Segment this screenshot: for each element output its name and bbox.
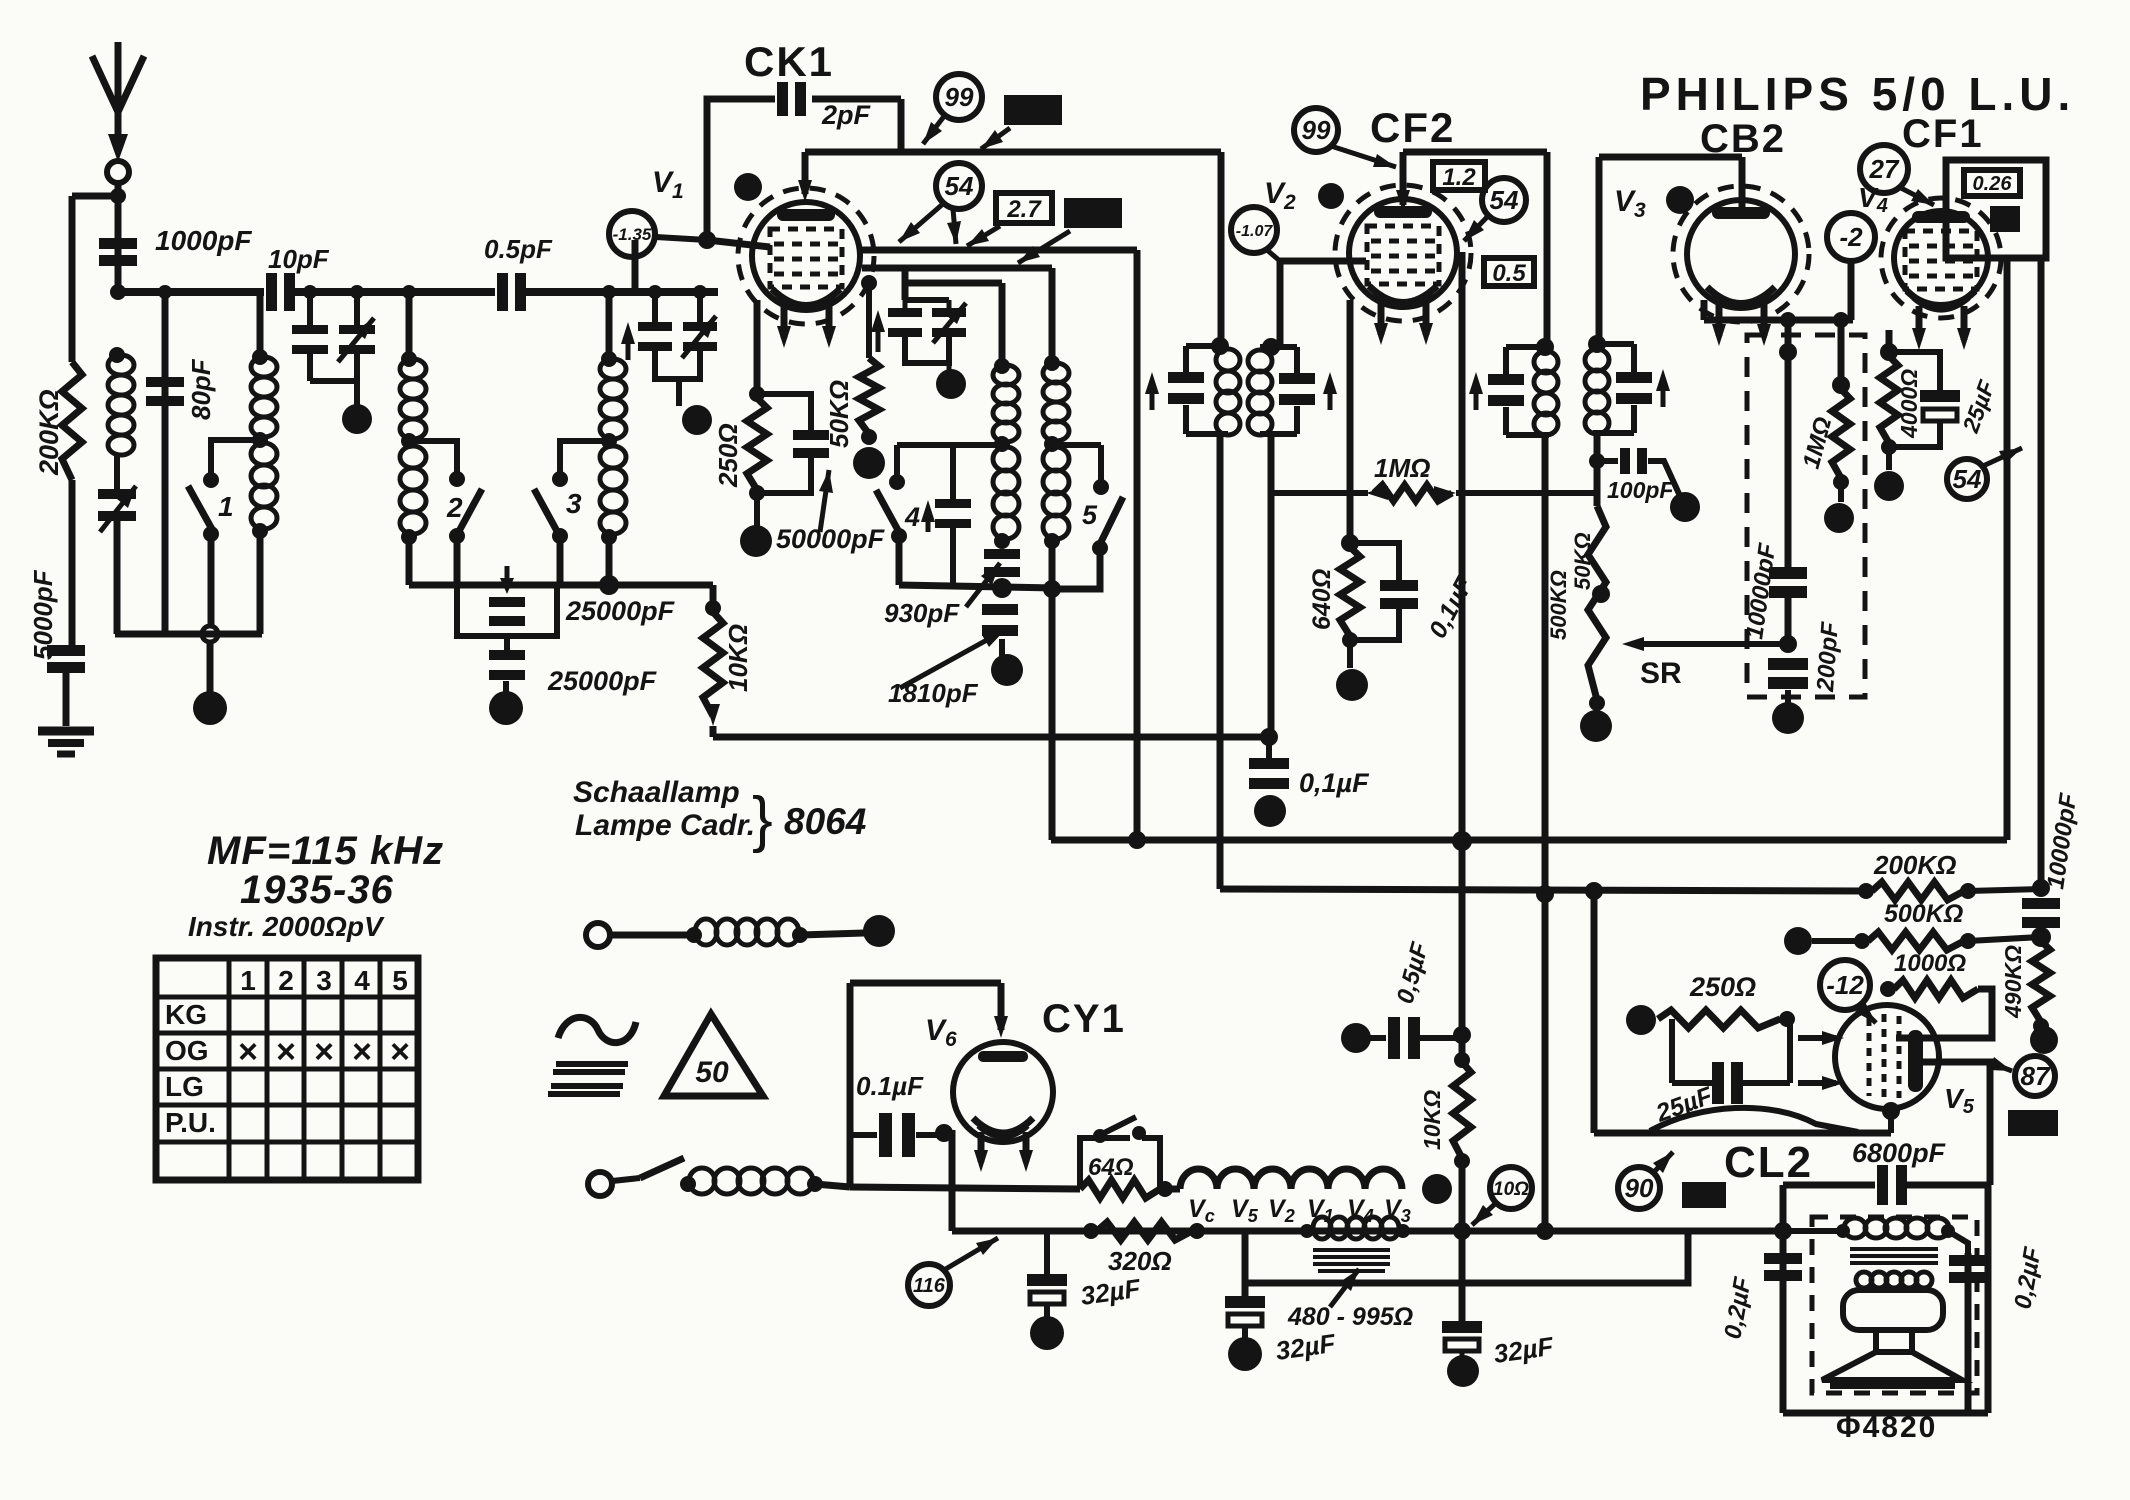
- capacitor 32uF b: [1225, 1296, 1265, 1326]
- duodiode V3: [1673, 186, 1809, 322]
- node speaker in left: [1774, 1222, 1792, 1240]
- inductor L5 lower: [993, 447, 1019, 539]
- wire 32uF2 branch: [1242, 1231, 1249, 1296]
- svg-text:-12: -12: [1826, 970, 1864, 1000]
- node bus padderB2: [693, 285, 707, 299]
- wire 50000pF bracket top: [757, 394, 811, 430]
- node 200K left: [1858, 883, 1874, 899]
- wire padder A2: [354, 292, 360, 325]
- wire anode to IFT1: [1218, 152, 1225, 346]
- trimmer padder B: [683, 322, 717, 351]
- wire padder A1 low: [307, 354, 313, 381]
- wire 50000pF bracket bottom: [757, 458, 811, 493]
- AC symbol: [558, 1017, 636, 1042]
- node 640R bottom: [1342, 632, 1358, 648]
- wire V3 left pin: [1701, 300, 1708, 320]
- node blob 32uF a: [1030, 1316, 1064, 1350]
- svg-text:54: 54: [945, 171, 974, 201]
- DC symbol lines: [548, 1064, 628, 1094]
- svg-text:Lampe Cadr.: Lampe Cadr.: [575, 809, 755, 842]
- node 500K left: [1854, 933, 1870, 949]
- trimmer A arrow: [338, 318, 374, 362]
- node 930pF junction: [992, 578, 1012, 598]
- wire to left branch: [72, 193, 118, 200]
- svg-text:PHILIPS 5/0 L.U.: PHILIPS 5/0 L.U.: [1640, 68, 2075, 120]
- wire coil6 down x1052: [1049, 541, 1056, 840]
- wire 100pF lead: [1597, 458, 1618, 464]
- svg-text:2: 2: [278, 965, 294, 996]
- inductor IFT1 left coil: [1216, 349, 1240, 435]
- annotation box 1.5: [1064, 198, 1122, 228]
- inductor IFT2 left coil: [1534, 351, 1558, 435]
- wire IFT2 right bottom to SR: [1594, 433, 1601, 506]
- svg-text:10KΩ: 10KΩ: [723, 624, 753, 692]
- wire trimmer4 top stub: [950, 445, 956, 499]
- wire into V3: [1739, 157, 1746, 210]
- svg-text:80pF: 80pF: [186, 358, 216, 420]
- wire band line B: [899, 585, 1056, 588]
- svg-text:-1.07: -1.07: [1236, 223, 1274, 240]
- wire right cap branch: [1965, 1253, 1972, 1413]
- wire 6800 right: [1907, 1182, 1990, 1189]
- wire coil down: [606, 537, 613, 585]
- capacitor 200pF: [1768, 658, 1808, 689]
- svg-text:250Ω: 250Ω: [1689, 972, 1756, 1002]
- heater chain humps: [1180, 1169, 1402, 1189]
- wire bracket switch5: [1052, 442, 1101, 448]
- svg-text:10KΩ: 10KΩ: [1419, 1090, 1445, 1150]
- wire V3 bottom link: [1704, 317, 1853, 324]
- resistor 490K: [2032, 941, 2050, 1022]
- svg-text:×: ×: [352, 1033, 372, 1071]
- wire 32uF1 stub: [1044, 1231, 1050, 1274]
- wire 4000R stub: [1886, 447, 1892, 470]
- node V2 pin blob: [1318, 183, 1344, 209]
- rectifier tube V6: [953, 1042, 1053, 1142]
- node blob 100pF: [1670, 492, 1700, 522]
- svg-text:50000pF: 50000pF: [776, 524, 886, 554]
- wire padder C stub: [947, 363, 952, 372]
- capacitor 6800pF: [1877, 1165, 1907, 1205]
- svg-text:99: 99: [1302, 115, 1331, 145]
- capacitor 25uF cathode: [1920, 390, 1960, 402]
- node 1M top: [1832, 376, 1850, 394]
- resistor 4000R: [1880, 356, 1898, 443]
- trimmer antenna: [98, 489, 136, 521]
- wire 500K to vertical: [1968, 937, 2041, 941]
- wire coil2 top: [257, 292, 264, 355]
- node switch3 top: [552, 471, 568, 487]
- node 250R right: [1779, 1011, 1795, 1027]
- warning triangle 50: [664, 1014, 763, 1096]
- node blob terminal row: [863, 915, 895, 947]
- wire to primary: [1783, 1228, 1843, 1234]
- wire into V2 top: [1400, 152, 1407, 205]
- node SR bottom: [1589, 695, 1605, 711]
- leader 10: [1472, 1203, 1496, 1225]
- svg-text:632: 632: [1013, 98, 1053, 125]
- inductor output choke: [1313, 1217, 1399, 1239]
- capacitor 10000pF coupling: [2022, 898, 2060, 928]
- node 1000R left: [1880, 981, 1896, 997]
- annotation box 3.1: [2008, 1110, 2058, 1136]
- antenna terminal: [107, 161, 129, 183]
- node line2 x1137: [1128, 831, 1146, 849]
- 1810pF arrow: [900, 630, 1005, 688]
- speaker pot outline: [1843, 1290, 1943, 1330]
- resistor 10K bias: [1453, 1062, 1471, 1158]
- node 100pF tap: [1589, 453, 1605, 469]
- wire to speaker block: [1688, 1228, 1783, 1235]
- CL2 pointer curve: [1650, 1108, 1858, 1132]
- annotation box 1.2: [1433, 162, 1485, 191]
- svg-text:1: 1: [218, 491, 234, 522]
- node blob 4000R: [1874, 471, 1904, 501]
- node 640R top: [1341, 534, 1359, 552]
- wire heater left: [1158, 1186, 1180, 1193]
- wire 200pF stub: [1785, 690, 1791, 704]
- node 250R bottom: [749, 485, 765, 501]
- node switch4 bottom: [891, 528, 907, 544]
- arrow 10K: [706, 704, 720, 726]
- node mains coil left: [680, 1176, 696, 1192]
- note: corner at 1280,261 joins vertical to IFT1: [1271, 344, 1280, 351]
- svg-text:2pF: 2pF: [821, 100, 872, 130]
- mains switch row: [588, 1172, 612, 1196]
- svg-text:490KΩ: 490KΩ: [2000, 945, 2026, 1019]
- wire padder A bracket: [310, 378, 357, 384]
- node blob under 50K: [853, 447, 885, 479]
- svg-text:50KΩ: 50KΩ: [1570, 532, 1595, 590]
- wire return jog: [1245, 1231, 1688, 1283]
- svg-text:0,1µF: 0,1µF: [1299, 768, 1370, 798]
- node 500K right: [1960, 933, 1976, 949]
- annotation 99 V1: [936, 74, 982, 120]
- annotation box dark: [1990, 206, 2020, 232]
- capacitor 25uF grid: [1712, 1062, 1724, 1104]
- svg-text:1: 1: [240, 965, 256, 996]
- wire 0.5uF lead: [1370, 1035, 1386, 1041]
- leader 116: [944, 1238, 998, 1270]
- svg-text:1.5: 1.5: [1076, 201, 1109, 228]
- node coil2 tap: [252, 432, 268, 448]
- node 50K top: [861, 275, 877, 291]
- wire speaker frame bottom: [1783, 1410, 1988, 1417]
- node coil2 bottom: [252, 523, 268, 539]
- node 10000pF top: [1779, 343, 1797, 361]
- node line2 diamond: [1452, 831, 1472, 851]
- up arrow IFT1 right: [1328, 380, 1333, 410]
- leader 27: [1899, 187, 1934, 205]
- node x2041 y888: [2032, 879, 2050, 897]
- svg-text:4: 4: [354, 965, 370, 996]
- wire coil down: [406, 537, 413, 585]
- node switch5 top: [1093, 479, 1109, 495]
- inductor antenna coil L1: [108, 355, 134, 455]
- capacitor 25000pF upper: [489, 597, 525, 626]
- choke core lines: [1313, 1250, 1390, 1271]
- node coil4 top: [601, 351, 617, 367]
- wire band line A: [409, 582, 713, 589]
- node 64R sw b: [1132, 1126, 1146, 1140]
- annotation box 2.7: [996, 193, 1052, 223]
- wire -1.35 to grid: [656, 237, 707, 240]
- V6 arrow a: [978, 1132, 985, 1162]
- node blob 250R: [1626, 1005, 1656, 1035]
- wire V5 cathode down: [1888, 1111, 1894, 1133]
- svg-text:10Ω: 10Ω: [1493, 1179, 1529, 1200]
- leader 632: [981, 128, 1010, 149]
- annotation -2: [1827, 213, 1875, 261]
- stub c2: [947, 300, 952, 308]
- wire V4 cathode stub: [1886, 330, 1893, 352]
- svg-text:64Ω: 64Ω: [1088, 1154, 1134, 1181]
- node coil6 top: [1044, 355, 1060, 371]
- wire to ground: [63, 673, 70, 726]
- wire main bus c: [526, 288, 718, 296]
- svg-text:1000Ω: 1000Ω: [1894, 950, 1966, 977]
- svg-text:Instr. 2000ΩpV: Instr. 2000ΩpV: [188, 911, 385, 942]
- wire coil1 down: [114, 521, 121, 634]
- node blob 490K: [2030, 1026, 2058, 1054]
- node padder C blob: [936, 369, 966, 399]
- node 320R right: [1189, 1223, 1205, 1239]
- capacitor 0.1uF V6: [879, 1113, 915, 1157]
- node blob 640R: [1336, 669, 1368, 701]
- wire line3 AVC-: [1220, 889, 1866, 891]
- wire between caps: [504, 636, 510, 650]
- svg-text:480 - 995Ω: 480 - 995Ω: [1287, 1303, 1413, 1331]
- arrow into V6: [994, 1016, 1008, 1038]
- svg-text:OG: OG: [165, 1035, 209, 1066]
- svg-text:3.1: 3.1: [2020, 1113, 2045, 1133]
- CF1 block frame: [1946, 160, 2046, 258]
- up arrow IFT2 right: [1661, 377, 1666, 407]
- node blob 500K: [1784, 927, 1812, 955]
- inductor L6 lower: [1043, 447, 1069, 539]
- annotation 10: [1490, 1167, 1532, 1209]
- wire V1 right pin: [902, 270, 909, 300]
- wire 100pF to blob: [1648, 461, 1680, 496]
- svg-text:8064: 8064: [784, 801, 866, 842]
- inductor L2 upper: [251, 357, 277, 437]
- annotation box 0.5: [1484, 258, 1534, 287]
- wire V6 cathode down: [949, 1130, 956, 1231]
- wire terminal row: [610, 932, 690, 939]
- node line3 T x1594: [1585, 882, 1603, 900]
- wire bus jog up: [632, 240, 639, 292]
- wire tap to switch2: [409, 441, 457, 473]
- resistor 64R: [1080, 1180, 1160, 1198]
- svg-text:27: 27: [1869, 154, 1900, 184]
- node heater left dot: [1157, 1181, 1173, 1197]
- capacitor padder C fixed: [888, 308, 922, 337]
- svg-text:500KΩ: 500KΩ: [1884, 900, 1963, 928]
- inductor speaker primary: [1844, 1218, 1949, 1238]
- V6 arrow b: [1023, 1132, 1030, 1162]
- leader 54 V2: [1464, 215, 1489, 241]
- wire bottom left line: [115, 631, 262, 638]
- wire switch5 drop: [1098, 445, 1104, 482]
- wire anode line: [805, 149, 1221, 156]
- wire speaker frame right: [1985, 1185, 1992, 1413]
- svg-text:2.7: 2.7: [1006, 196, 1042, 223]
- svg-text:CF1: CF1: [1902, 112, 1984, 156]
- resistor 1M det: [1832, 389, 1850, 478]
- svg-text:4000Ω: 4000Ω: [1896, 369, 1922, 439]
- wire CL2 left vertical: [1591, 891, 1598, 1133]
- wire V1 cathode: [754, 300, 761, 394]
- capacitor 80pF: [146, 377, 184, 406]
- node lineA junction: [599, 575, 619, 595]
- wire bracket switch4: [897, 442, 1002, 448]
- node link x1841: [1833, 312, 1849, 328]
- resistor 1M AVC: [1374, 485, 1452, 501]
- wire 6800 left: [1783, 1182, 1875, 1189]
- svg-text:CF2: CF2: [1370, 104, 1455, 151]
- up arrow C: [876, 318, 881, 352]
- node primary right: [1941, 1224, 1955, 1238]
- node blob under 250R: [740, 525, 772, 557]
- svg-text:1.2: 1.2: [1442, 164, 1476, 191]
- node line1 right corner: [1260, 728, 1278, 746]
- node bus padderB1: [648, 285, 662, 299]
- capacitor padder B fixed: [638, 322, 672, 351]
- wire 0.1uF V6 lead: [850, 1132, 877, 1138]
- svg-text:-2: -2: [1839, 222, 1863, 252]
- trimmer arrow: [100, 486, 136, 532]
- 930pF arrow: [966, 563, 1000, 607]
- wire 64R bypass bracket: [1080, 1138, 1130, 1189]
- wire 0.1uF bracket: [1350, 543, 1399, 580]
- svg-text:640Ω: 640Ω: [1308, 569, 1336, 630]
- leader -12: [1858, 1005, 1876, 1023]
- wire line2 HT: [1051, 837, 2007, 844]
- node V1 pin blob: [734, 173, 762, 201]
- leader 54 a: [899, 203, 944, 242]
- wire 200K to vertical: [1968, 889, 2041, 891]
- svg-text:LG: LG: [165, 1071, 204, 1102]
- node coil bottom: [401, 529, 417, 545]
- capacitor 0.5uF: [1388, 1017, 1420, 1059]
- capacitor 100pF: [1620, 448, 1647, 474]
- node bus padderA1: [303, 285, 317, 299]
- wire vertical to 32uF: [1459, 1161, 1466, 1321]
- leader 90: [1654, 1152, 1673, 1172]
- node blob 1M: [1824, 503, 1854, 533]
- wire padderB1: [652, 292, 658, 322]
- svg-text:3: 3: [566, 488, 582, 519]
- resistor 500K: [1868, 932, 1964, 950]
- node ground blob 25000pF: [489, 691, 523, 725]
- inductor osc coil L5 upper: [993, 365, 1019, 442]
- wire 25uF2 lead b: [1743, 1080, 1790, 1086]
- wire right vertical A x2007: [2004, 258, 2011, 840]
- annotation -1.35: [609, 211, 655, 257]
- node switch2 bottom: [449, 528, 465, 544]
- node switch5 bottom: [1092, 540, 1108, 556]
- node 1M bottom: [1833, 474, 1849, 490]
- svg-text:KG: KG: [165, 999, 207, 1030]
- node primary left: [1836, 1224, 1850, 1238]
- svg-text:3: 3: [316, 965, 332, 996]
- node antenna junction: [110, 188, 126, 204]
- wire L1 anode-screen: [862, 247, 1137, 254]
- capacitor 1810pF: [982, 604, 1018, 636]
- wire 500K lead: [1812, 938, 1858, 944]
- wire main bus b: [295, 288, 495, 296]
- node coil tap: [401, 433, 417, 449]
- wire primary to cap: [1948, 1231, 1968, 1253]
- svg-text:×: ×: [314, 1033, 334, 1071]
- svg-text:25000pF: 25000pF: [565, 596, 676, 626]
- up arrow IFT1: [1150, 380, 1155, 410]
- wire coil3 top: [406, 292, 413, 357]
- wire tap to switch3: [560, 441, 609, 473]
- svg-text:320Ω: 320Ω: [1108, 1246, 1172, 1276]
- wire padder B bracket: [655, 351, 700, 379]
- switch 3: [534, 489, 558, 533]
- node line3 x1545: [1536, 885, 1554, 903]
- resistor 1000R: [1894, 980, 1978, 998]
- node blob 0.5uF: [1341, 1023, 1371, 1053]
- svg-text:0.5: 0.5: [1492, 260, 1526, 287]
- wire 640R stub: [1347, 640, 1353, 668]
- node coil bottom: [601, 529, 617, 545]
- wire switch2 down: [454, 536, 461, 585]
- node blob 1810pF: [991, 654, 1023, 686]
- wire 25uF2 lead a: [1672, 1080, 1712, 1086]
- annotation -12: [1820, 960, 1870, 1010]
- speaker dashed box: [1812, 1217, 1977, 1393]
- table LG dash: [374, 1103, 412, 1108]
- inductor L4 lower: [600, 446, 626, 534]
- wire long vertical x1137: [1134, 250, 1141, 840]
- inductor IFT2 right coil: [1585, 349, 1609, 434]
- wire CK1 loop right: [898, 99, 905, 150]
- leader 99: [923, 115, 945, 144]
- wire coil2 down: [257, 531, 264, 634]
- svg-text:Schaallamp: Schaallamp: [573, 776, 740, 809]
- resistor 200K: [1872, 882, 1964, 900]
- node bus 80pF: [158, 285, 172, 299]
- wire 1810 stub: [999, 639, 1005, 656]
- capacitor IFT1 right: [1279, 373, 1315, 405]
- node 320R left: [1083, 1223, 1099, 1239]
- wire switch4 drop: [894, 445, 900, 476]
- annotation box 632: [1004, 95, 1062, 125]
- node coil3 top: [401, 351, 417, 367]
- wire L2 corner to coil6: [1049, 268, 1056, 361]
- svg-text:5: 5: [1082, 500, 1098, 530]
- capacitor CK1 2pF: [777, 82, 806, 116]
- wire L3 corner to coil5: [999, 283, 1006, 365]
- node choke left: [1300, 1224, 1314, 1238]
- up arrow B: [626, 330, 631, 360]
- svg-text:500KΩ: 500KΩ: [1546, 570, 1571, 640]
- resistor 250R out: [1658, 1010, 1780, 1028]
- wire 1M top: [1838, 320, 1845, 385]
- node cross 1462-1231: [1453, 1222, 1471, 1240]
- resistor 50K: [859, 358, 879, 434]
- aerial terminal row: [586, 923, 610, 947]
- svg-text:930pF: 930pF: [884, 598, 960, 628]
- node V1 grid top: [698, 231, 716, 249]
- node coil5 bottom: [994, 533, 1010, 549]
- node 490K bottom: [2033, 1018, 2049, 1034]
- node switch3 bottom: [552, 528, 568, 544]
- inductor L2 lower: [251, 443, 277, 529]
